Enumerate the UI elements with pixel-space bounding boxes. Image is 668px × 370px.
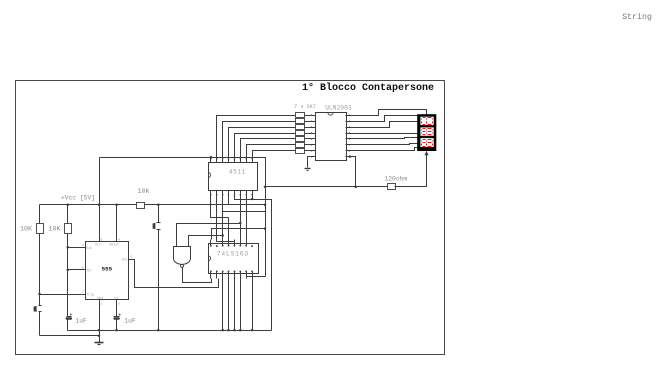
wire trig junction to C1	[39, 295, 41, 306]
wire NAND left input	[177, 224, 241, 247]
svg-text:6: 6	[82, 266, 84, 269]
svg-text:1uF: 1uF	[124, 318, 136, 325]
svg-text:7: 7	[82, 244, 84, 247]
ULN2003 right pin 15	[346, 150, 351, 152]
junction Vcc bus / decoupling branch	[157, 204, 160, 207]
resistor R1 10K vertical body	[39, 205, 41, 224]
wire ULN2003 out7 to display	[351, 148, 418, 151]
NAND output bubble	[181, 264, 184, 267]
74LS163 bottom pin 3	[222, 272, 224, 279]
74LS163 top pin 1	[210, 240, 212, 246]
IC U3 74LS163 body	[209, 244, 259, 274]
ground symbol under ULN2003	[305, 168, 311, 170]
svg-text:7 x 2K7: 7 x 2K7	[294, 104, 316, 110]
junction Vcc bus / riser to 4511	[98, 204, 101, 207]
IC U5 ULN2003 body	[316, 113, 347, 161]
wire 4511 bottom pin3 to 74LS163 pin3	[222, 196, 224, 240]
wire 555 Reset pin riser to bus	[116, 205, 118, 242]
wire Vcc bus right segment	[145, 204, 266, 206]
wire 120ohm to display bottom	[395, 152, 427, 187]
ULN2003 left pin 1	[312, 115, 316, 117]
4511 top pin 5	[234, 158, 236, 163]
wire resnet R4 to ULN2003 pin 1	[305, 115, 312, 117]
wire 4511 bottom pin7 to 74LS163 pin7	[246, 196, 248, 240]
ULN2003 left pin 8	[312, 156, 316, 158]
junction Vcc bus end at vertical V1	[264, 204, 267, 207]
4511 top pin 6	[240, 158, 242, 163]
svg-text:555: 555	[102, 265, 113, 272]
display cell 2 digit 2 segments	[427, 129, 433, 135]
ULN2003 left pin 5	[312, 138, 316, 140]
junction display resistor line	[354, 186, 357, 189]
wire C2 to bottom bus corner	[67, 320, 69, 331]
display cell 3 digit 1 segments	[422, 140, 427, 147]
arrow into display bottom	[424, 151, 428, 155]
74LS163 bottom pin 1	[210, 272, 212, 279]
junction NAND right input / 4511 pin3 line	[221, 234, 224, 237]
junction V1 / 74LS163 pin1 branch	[264, 227, 267, 230]
74LS163 bottom pin 6	[240, 272, 242, 279]
junction Gnd line / ground stem	[98, 335, 101, 338]
wire pin1 jog descender to 74LS163 pin4	[228, 218, 230, 240]
svg-text:10K: 10K	[49, 226, 61, 234]
wire 4511 pin4 riser to row3	[229, 128, 296, 158]
wire bottom ground bus	[68, 330, 272, 332]
ULN2003 left pin 3	[312, 127, 316, 129]
wire 555 Vcc pin riser to bus	[99, 205, 101, 242]
ULN2003 right pin 14	[346, 144, 351, 146]
wire resnet R8 to ULN2003 pin 5	[305, 138, 312, 140]
wire C1 to bottom ground run	[39, 312, 41, 336]
display cell 2 digit 1 segments	[422, 129, 427, 135]
wire C3 to bottom bus	[116, 320, 118, 331]
ULN2003 right pin 13	[346, 138, 351, 140]
svg-text:Gnd: Gnd	[98, 296, 104, 300]
wire bottom ground run to ground junction	[40, 335, 100, 337]
ULN2003 left pin 6	[312, 144, 316, 146]
svg-text:ULN2003: ULN2003	[325, 105, 352, 112]
ULN2003 right pin 16	[346, 156, 351, 158]
svg-text:Trig: Trig	[86, 293, 94, 297]
4511 top pin 4	[228, 158, 230, 163]
wire R1 to trig junction	[39, 234, 41, 295]
svg-text:1uF: 1uF	[76, 318, 88, 325]
junction R2 line / 555 Dis pin wire	[67, 246, 70, 249]
4511 bottom pin 6	[240, 191, 242, 196]
capacitor C2 1uF (on 555 Thr branch)	[67, 316, 72, 318]
svg-text:Dis: Dis	[86, 246, 92, 250]
wire 74LS163 bottom pin8 to ground bus	[252, 279, 254, 331]
4511 top pin 2	[216, 158, 218, 163]
4511 bottom pin 1	[210, 191, 212, 196]
resistor network R10 body	[296, 149, 305, 154]
capacitor C1 (electrolytic, on R1 line)	[39, 305, 42, 307]
74LS163 bottom pin 7	[246, 272, 248, 279]
ULN2003 right pin 10	[346, 121, 351, 123]
wire ULN2003 out5 to display	[351, 138, 418, 139]
wire ULN2003 out2 to display	[351, 116, 418, 122]
wire resnet R5 to ULN2003 pin 2	[305, 121, 312, 123]
svg-text:+Vcc [5V]: +Vcc [5V]	[61, 195, 95, 202]
wire 74LS163 pin1 top branch from V1	[212, 229, 266, 240]
svg-text:Out: Out	[122, 258, 128, 262]
capacitor C3 1uF (on Dis branch)	[114, 316, 120, 318]
svg-text:1° Blocco Contapersone: 1° Blocco Contapersone	[302, 82, 434, 94]
svg-text:74LS163: 74LS163	[217, 250, 249, 257]
wire 74LS163 bottom pin3 to ground bus	[222, 279, 224, 331]
svg-text:Thr: Thr	[86, 268, 92, 272]
wire 4511 pin3 riser to row2	[223, 122, 296, 158]
wire 4511 bottom pin1 to 74LS163 pin4	[211, 196, 229, 218]
svg-text:String: String	[622, 12, 652, 22]
wire 4511 bottom pin2 to 74LS163 pin5	[217, 196, 235, 242]
wire 4511 bottom pin8 drop	[252, 196, 254, 200]
schematic frame border	[16, 81, 445, 355]
74LS163 top pin 2	[216, 245, 218, 247]
74LS163 notch	[208, 256, 211, 261]
wire ULN2003 out3 to display	[351, 122, 418, 128]
wire ULN2003 out6 to display	[351, 144, 418, 145]
4511 bottom pin 2	[216, 191, 218, 196]
svg-text:Cv: Cv	[115, 296, 119, 300]
IC U2 4511 body	[209, 163, 258, 191]
junction feed line / 4511 pin1	[210, 156, 213, 159]
4511 notch	[208, 172, 211, 177]
IC U1 555 body	[86, 242, 129, 300]
resistor network R9 body	[296, 143, 305, 148]
wire 4511 pin2 riser to resistor network row1	[217, 116, 296, 158]
junction C3 / bottom bus	[115, 329, 118, 332]
4511 bottom pin 4	[228, 191, 230, 196]
wire 4511 bottom pin4 to Vcc bus	[228, 196, 230, 205]
junction pin5 wire / 4511 pin8 drop	[251, 198, 254, 201]
74LS163 bottom pin 8	[252, 272, 254, 279]
junction Gnd line / bottom bus	[98, 329, 101, 332]
display cell 1 digit 2 segments	[427, 118, 433, 125]
junction R1 / trig wire	[38, 293, 41, 296]
wire ULN2003 out4 to display	[351, 133, 418, 135]
wire NAND right input	[189, 236, 223, 247]
ULN2003 left pin 4	[312, 133, 316, 135]
wire 74LS163 bottom pin6 to ground bus	[240, 279, 242, 331]
resistor network R4 body	[296, 113, 305, 118]
4511 top pin 7	[246, 158, 248, 163]
resistor network R8 body	[296, 137, 305, 142]
display cell 1	[420, 117, 433, 125]
wire 4511 pin8 riser to row7	[253, 151, 296, 158]
wire 555 Cv pin down to C3	[116, 300, 118, 317]
wire resnet R6 to ULN2003 pin 3	[305, 127, 312, 129]
wire 4511 pin7 riser to row6	[247, 145, 296, 158]
74LS163 bottom pin 5	[234, 272, 236, 279]
4511 top pin 3	[222, 158, 224, 163]
svg-text:4511: 4511	[229, 169, 246, 176]
junction decoupling branch / bottom bus	[157, 329, 160, 332]
svg-text:4: 4	[118, 239, 120, 242]
wire top feed line to V1 (passes over 4511)	[100, 158, 266, 277]
resistor R3 10K horizontal body	[137, 203, 145, 209]
junction ULN2003 pin16 wire	[349, 155, 352, 158]
junction Vcc bus / R2	[67, 204, 70, 207]
svg-text:120ohm: 120ohm	[385, 176, 408, 183]
74LS163 top pin 5	[234, 240, 236, 246]
svg-text:3: 3	[130, 255, 132, 258]
ULN2003 right pin 9	[346, 115, 351, 117]
svg-text:Vcc: Vcc	[95, 242, 101, 246]
svg-text:8: 8	[101, 239, 103, 242]
wire trig from R1 junction to 555 Trig pin	[40, 294, 86, 296]
wire 555 Gnd pin down to ground	[99, 300, 101, 336]
wire 4511 pin5 riser to row4	[235, 134, 296, 158]
wire Vcc bus left segment	[40, 204, 137, 206]
wire 4511 bottom pin6 to 74LS163 pin6	[240, 196, 242, 240]
display DIS1 3-digit 7-segment block	[417, 114, 436, 151]
4511 bottom pin 7	[246, 191, 248, 196]
display cell 3 digit 2 segments	[427, 140, 433, 147]
wire 74LS163 bottom pin4 to ground bus	[228, 279, 230, 331]
wire to 555 Thr pin	[68, 269, 86, 271]
74LS163 top pin 6	[240, 240, 242, 246]
wire ULN2003 pin8 to ground	[308, 157, 312, 168]
wire to 555 Dis pin	[68, 247, 86, 249]
wire resnet R9 to ULN2003 pin 6	[305, 144, 312, 146]
wire resnet R10 to ULN2003 pin 7	[305, 150, 312, 152]
svg-text:Reset: Reset	[110, 242, 120, 246]
wire stub row at 211	[223, 211, 266, 213]
svg-text:10K: 10K	[20, 226, 32, 234]
display cell 2	[420, 127, 433, 135]
ground symbol (main)	[99, 336, 101, 343]
resistor network R7 body	[296, 131, 305, 136]
resistor network R5 body	[296, 119, 305, 124]
svg-text:+: +	[118, 312, 121, 319]
ULN2003 notch	[328, 113, 333, 116]
junction NAND left input / 4511 pin6 line	[239, 222, 242, 225]
svg-text:2: 2	[82, 291, 84, 294]
ULN2003 right pin 12	[346, 133, 351, 135]
svg-text:1: 1	[101, 303, 103, 306]
74LS163 top pin 7	[246, 240, 248, 246]
wire Vcc riser to 4511 feed line	[99, 158, 101, 205]
wire C4 to bottom bus	[158, 230, 160, 331]
NAND gate U4 body	[174, 247, 191, 265]
wire ULN2003 pin16 down to display resistor line	[346, 157, 356, 187]
4511 bottom pin 8	[252, 191, 254, 196]
display cell 3	[420, 138, 433, 147]
wire 74LS163 bottom pin7 jog to V1 end	[247, 277, 266, 279]
junction Vcc bus / 555 reset riser	[115, 204, 118, 207]
wire 555 Out pin to 74LS163	[129, 260, 219, 288]
capacitor C4 (decoupling, on branch)	[157, 222, 161, 224]
74LS163 top pin 8	[251, 245, 253, 247]
wire 4511 pin6 riser to row5	[241, 139, 296, 158]
wire Vcc decoupling branch down from bus	[158, 205, 160, 223]
wire V1 to 120ohm resistor	[266, 186, 388, 188]
wire 4511 bottom pin5 to vertical V2	[235, 196, 272, 331]
wire ULN2003 out1 over display top	[351, 110, 427, 116]
resistor R11 120ohm body	[388, 184, 396, 190]
wire resnet R7 to ULN2003 pin 4	[305, 133, 312, 135]
junction R2 line / 555 Thr pin wire	[67, 268, 70, 271]
ULN2003 left pin 2	[312, 121, 316, 123]
4511 top pin 1	[210, 158, 212, 163]
74LS163 bottom pin 2	[216, 272, 218, 279]
svg-text:+: +	[69, 312, 72, 319]
4511 bottom pin 3	[222, 191, 224, 196]
resistor network R6 body	[296, 125, 305, 130]
resistor R2 10K vertical body	[67, 205, 69, 224]
ULN2003 left pin 7	[312, 150, 316, 152]
wire R2 down to 555 left pins	[67, 234, 69, 317]
74LS163 top pin 4	[228, 240, 230, 246]
wire NAND output to 74LS163 pin1 bottom	[183, 268, 212, 283]
display cell 1 digit 1 segments	[422, 118, 427, 125]
74LS163 top pin 3	[222, 240, 224, 246]
wire 74LS163 bottom pin5 to ground bus	[234, 279, 236, 331]
4511 top pin 8	[252, 158, 254, 163]
svg-text:10K: 10K	[138, 188, 150, 196]
4511 bottom pin 5	[234, 191, 236, 196]
ULN2003 right pin 11	[346, 127, 351, 129]
svg-text:5: 5	[118, 303, 120, 306]
74LS163 bottom pin 4	[228, 272, 230, 279]
junction V1 / display resistor branch	[264, 186, 267, 189]
